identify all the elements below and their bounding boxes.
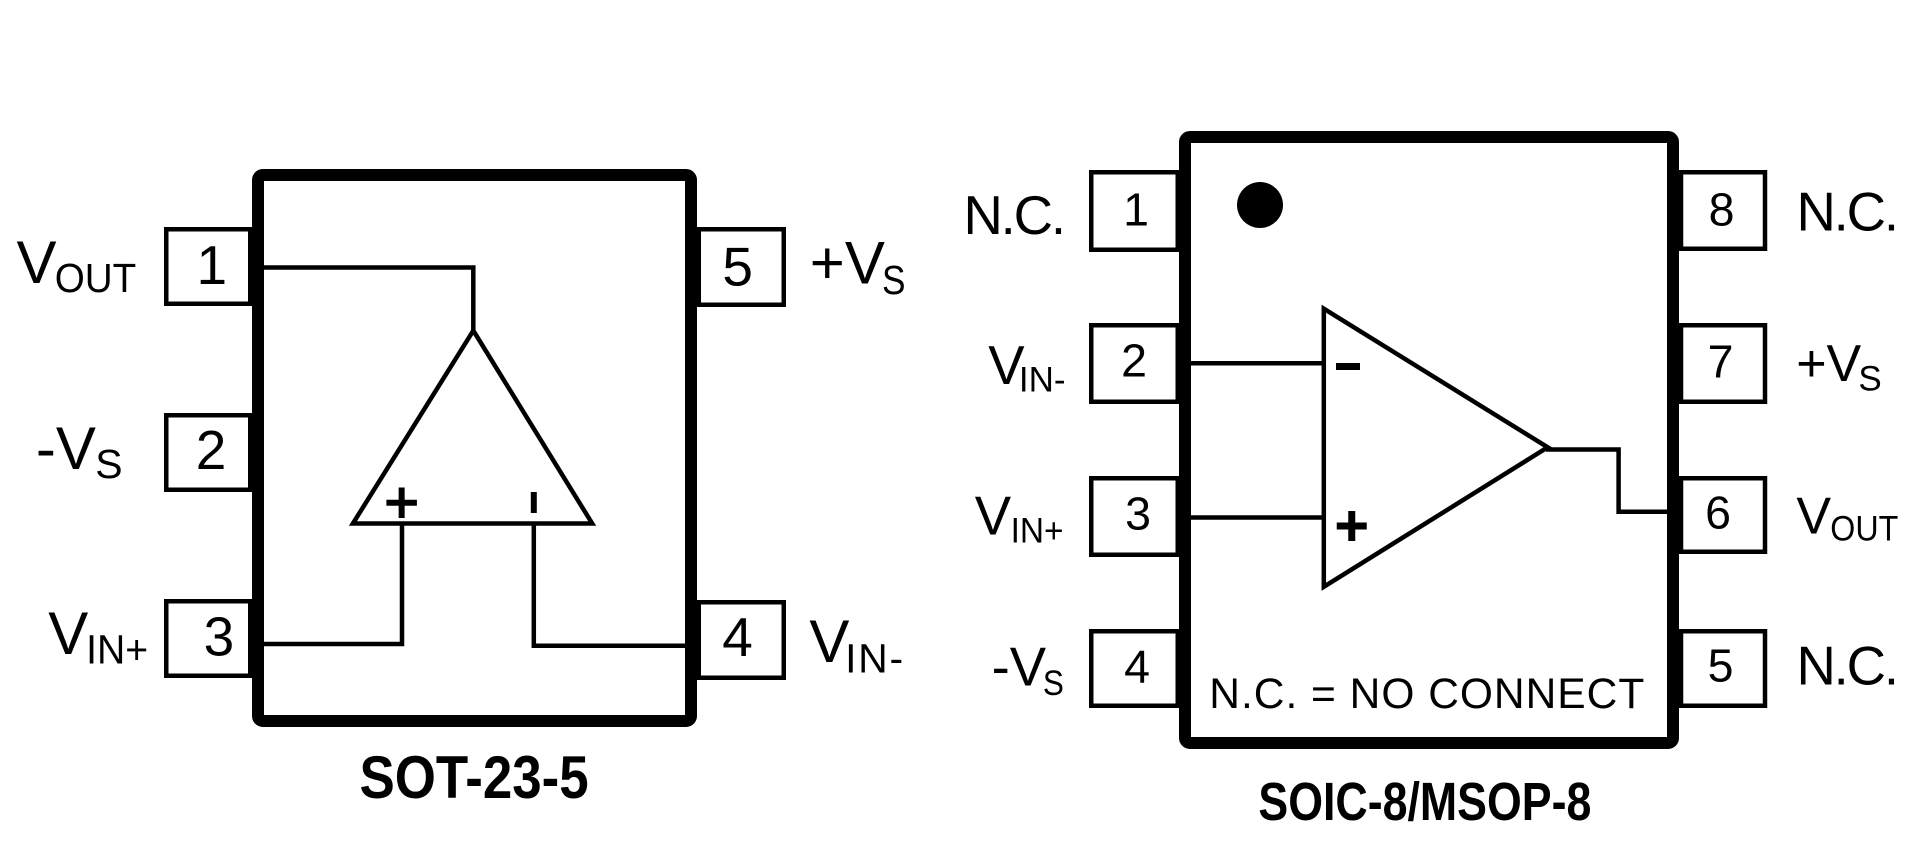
svg-text:3: 3: [204, 606, 235, 668]
svg-text:S: S: [1858, 360, 1881, 399]
svg-text:N.C.: N.C.: [1797, 636, 1900, 697]
svg-text:+V: +V: [810, 230, 885, 297]
svg-text:OUT: OUT: [55, 255, 137, 301]
svg-text:N.C.: N.C.: [1797, 182, 1900, 243]
svg-text:3: 3: [1125, 487, 1151, 539]
svg-text:6: 6: [1705, 487, 1731, 539]
svg-text:4: 4: [1124, 641, 1150, 693]
svg-text:S: S: [1043, 664, 1064, 703]
svg-text:N.C. = NO CONNECT: N.C. = NO CONNECT: [1209, 671, 1644, 718]
svg-text:V: V: [975, 486, 1012, 547]
svg-text:+V: +V: [1796, 335, 1861, 393]
svg-text:V: V: [48, 600, 88, 667]
svg-text:SOIC-8/MSOP-8: SOIC-8/MSOP-8: [1258, 772, 1591, 832]
svg-text:2: 2: [196, 419, 227, 481]
svg-text:5: 5: [1708, 640, 1734, 692]
svg-text:-V: -V: [36, 415, 96, 482]
svg-text:IN-: IN-: [1019, 361, 1066, 400]
svg-text:8: 8: [1709, 184, 1735, 236]
svg-text:IN+: IN+: [86, 627, 148, 673]
svg-text:SOT-23-5: SOT-23-5: [360, 744, 589, 811]
svg-text:5: 5: [722, 236, 753, 298]
svg-text:V: V: [809, 608, 849, 675]
svg-text:4: 4: [722, 606, 753, 668]
svg-text:S: S: [95, 441, 122, 487]
svg-text:OUT: OUT: [1830, 510, 1898, 549]
svg-text:2: 2: [1121, 335, 1147, 387]
svg-text:N.C.: N.C.: [964, 185, 1067, 246]
svg-text:1: 1: [1123, 183, 1149, 235]
svg-text:IN+: IN+: [1011, 512, 1064, 551]
svg-text:V: V: [17, 229, 57, 296]
svg-text:-V: -V: [992, 636, 1047, 697]
svg-text:1: 1: [197, 234, 228, 296]
svg-text:S: S: [882, 257, 906, 303]
svg-text:7: 7: [1708, 336, 1734, 388]
svg-text:V: V: [1796, 487, 1831, 545]
svg-text:IN-: IN-: [845, 636, 903, 682]
